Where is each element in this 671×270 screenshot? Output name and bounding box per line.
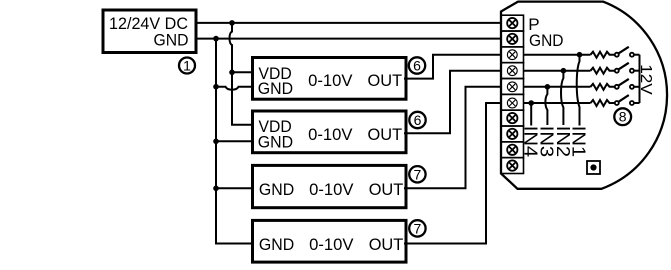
wire tap IN1 (bow over rows below): [577, 55, 580, 126]
wire GND branch to box2 GND: [216, 140, 253, 142]
terminal screw symbols (thin: 3,4,5,6): [507, 50, 517, 108]
input row 2: wire from terminal 4: [524, 70, 591, 72]
svg-text:8: 8: [619, 109, 627, 125]
converter box U3 (GND 0-10V OUT): [253, 165, 407, 207]
junction GND to box3: [213, 186, 219, 192]
junction GND to box2: [213, 139, 219, 145]
terminal screw symbols (bold: 1,2,7,8,9,10): [507, 18, 517, 171]
svg-text:12V: 12V: [637, 64, 654, 95]
svg-text:OUT: OUT: [368, 71, 403, 90]
svg-text:GND: GND: [258, 133, 293, 152]
wire tap IN3 (hop over row 4): [545, 87, 547, 125]
switch S2: [615, 63, 640, 73]
wire U4 OUT to terminal 6: [404, 103, 501, 244]
label 7 (circled) for U4: [409, 220, 425, 236]
terminal 4: [501, 63, 523, 79]
wire GND branch to box3 GND: [216, 187, 253, 189]
wire GND branch to box1 GND with hop over V+ drop: [216, 87, 253, 90]
resistor R2: [591, 68, 615, 74]
wire U2 OUT to terminal 4: [404, 71, 501, 134]
converter box U2 (VDD GND 0-10V OUT): [253, 111, 407, 153]
svg-text:OUT: OUT: [369, 235, 404, 254]
junction row2 tap: [561, 68, 567, 74]
12V bus: [639, 55, 641, 103]
wire U1 OUT to terminal 3: [404, 55, 501, 79]
svg-text:7: 7: [414, 220, 422, 236]
svg-text:0-10V: 0-10V: [309, 235, 354, 254]
terminal 6: [501, 94, 523, 110]
terminal 5: [501, 79, 523, 95]
svg-text:OUT: OUT: [368, 125, 403, 144]
svg-text:GND: GND: [259, 180, 294, 199]
svg-text:7: 7: [414, 166, 422, 182]
wire tap IN4: [530, 103, 532, 126]
label 8 (circled): [614, 108, 631, 125]
status LED square: [587, 161, 600, 174]
input row 1: wire from terminal 3: [524, 54, 591, 56]
junction GND to box1: [213, 84, 219, 90]
wire V+ branch to box1 VDD: [232, 71, 253, 73]
svg-text:6: 6: [413, 58, 421, 74]
label 1 (circled): [179, 58, 195, 74]
label 7 (circled) for U3: [409, 166, 425, 182]
terminal 10: [501, 158, 523, 174]
power source box PS1: [103, 10, 196, 53]
junction on + wire: [229, 20, 235, 26]
terminal 3: [501, 47, 523, 63]
junction row4 tap: [528, 100, 534, 106]
label 6 (circled) for U1: [409, 57, 425, 73]
wire tap IN2 (bow over rows below): [561, 71, 563, 125]
converter box U1 (VDD GND 0-10V OUT): [253, 58, 407, 100]
svg-text:GND: GND: [529, 31, 564, 50]
junction row3 tap: [545, 84, 551, 90]
switch S4: [615, 95, 640, 105]
label 6 (circled) for U2: [409, 112, 425, 128]
input row 4: wire from terminal 6: [524, 102, 591, 104]
terminal 7: [501, 110, 523, 126]
terminal 8: [501, 126, 523, 142]
switch S1: [615, 47, 640, 57]
svg-text:0-10V: 0-10V: [308, 125, 353, 144]
wire GND to terminal GND: [196, 38, 501, 40]
wire V+ drop with hop over GND wire: [230, 23, 253, 125]
svg-text:1: 1: [183, 58, 191, 74]
svg-text:GND: GND: [154, 30, 189, 49]
svg-text:0-10V: 0-10V: [309, 180, 354, 199]
junction V+ to box1 VDD: [229, 70, 235, 76]
input row 3: wire from terminal 5: [524, 86, 591, 88]
junction on GND wire: [213, 36, 219, 42]
svg-text:GND: GND: [259, 235, 294, 254]
terminal 2 (GND): [501, 31, 523, 47]
junction row1 tap: [577, 52, 583, 58]
terminal 1 (P): [501, 15, 523, 31]
terminal strip: [501, 15, 523, 173]
svg-text:IN4: IN4: [521, 126, 542, 158]
resistor R4: [591, 100, 615, 106]
converter box U4 (GND 0-10V OUT): [253, 220, 407, 262]
wire GND vertical drop to box4: [216, 39, 253, 244]
switch S3: [615, 79, 640, 89]
wire U3 OUT to terminal 5: [404, 87, 501, 189]
resistor R1: [591, 52, 615, 58]
svg-text:GND: GND: [258, 79, 293, 98]
wire 12/24V+ to terminal P: [196, 22, 501, 24]
resistor R3: [591, 84, 615, 90]
device outline (actuator housing): [501, 2, 667, 189]
svg-text:OUT: OUT: [369, 180, 404, 199]
terminal 9: [501, 142, 523, 158]
svg-text:6: 6: [414, 112, 422, 128]
svg-text:0-10V: 0-10V: [308, 71, 353, 90]
